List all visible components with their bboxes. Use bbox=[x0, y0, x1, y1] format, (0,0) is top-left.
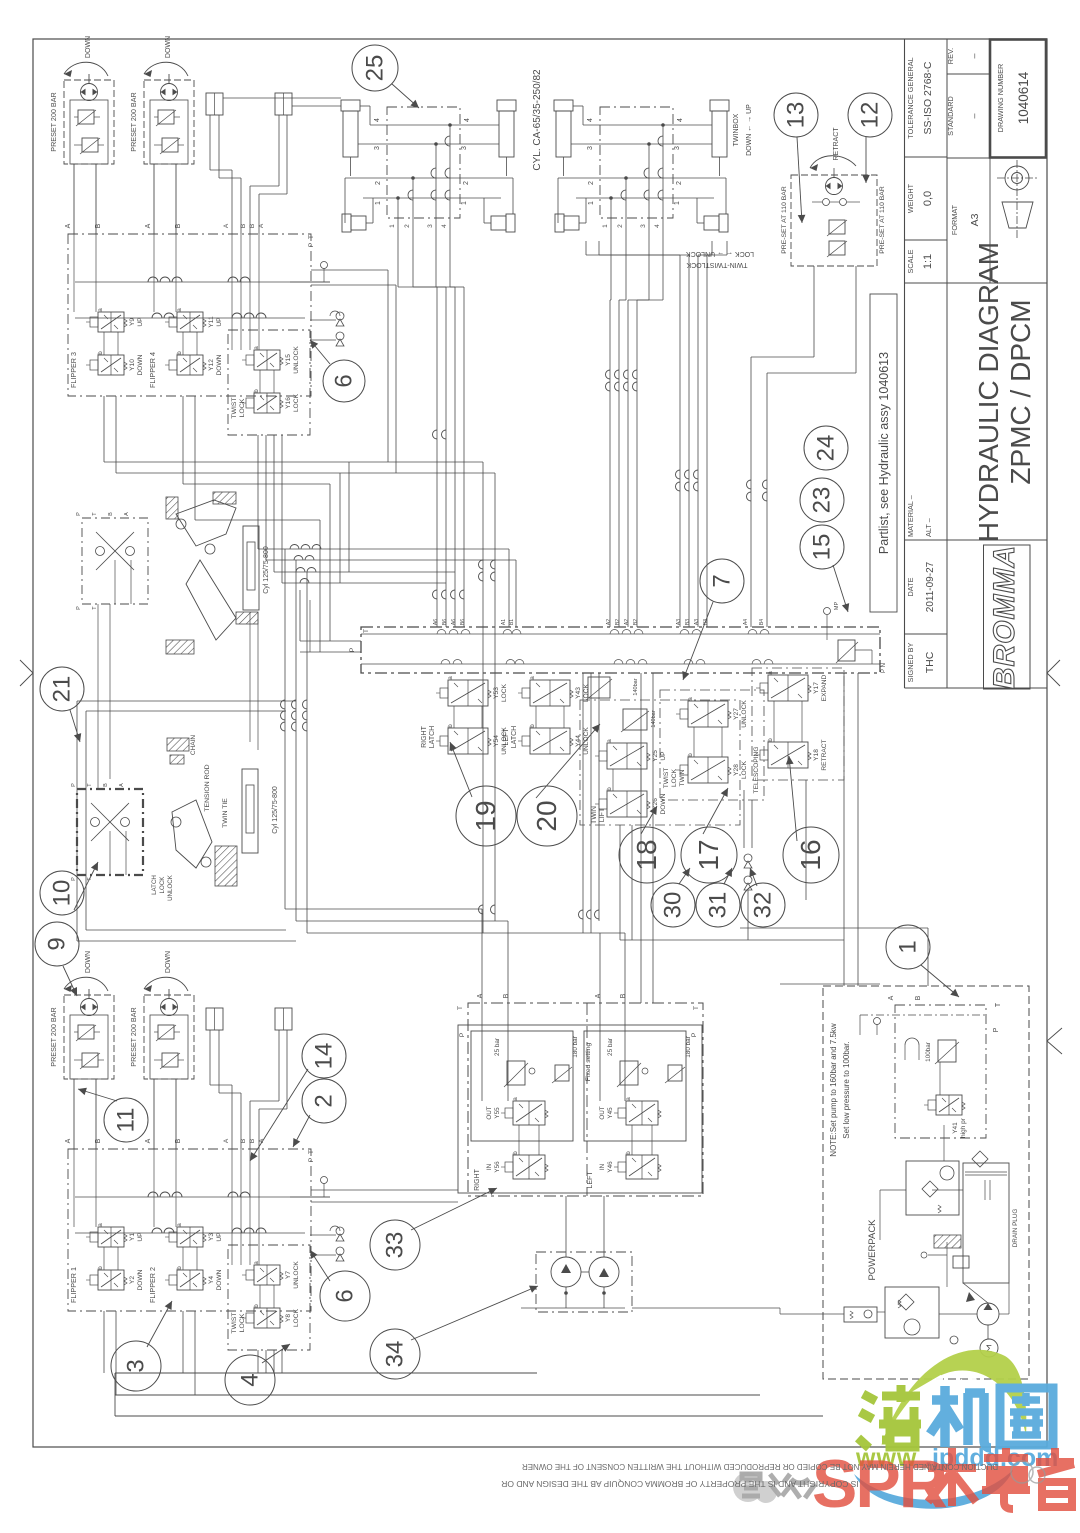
svg-text:SS-ISO 2768-C: SS-ISO 2768-C bbox=[922, 61, 934, 134]
svg-text:T: T bbox=[693, 1006, 700, 1010]
svg-text:LATCH: LATCH bbox=[511, 726, 518, 748]
svg-text:A: A bbox=[888, 995, 895, 1000]
svg-text:Y10: Y10 bbox=[129, 359, 136, 371]
svg-text:31: 31 bbox=[705, 892, 732, 919]
svg-text:B: B bbox=[175, 223, 182, 228]
svg-text:T: T bbox=[363, 629, 370, 633]
svg-text:P: P bbox=[993, 1027, 1000, 1032]
svg-text:24: 24 bbox=[813, 435, 840, 462]
svg-text:10: 10 bbox=[49, 880, 76, 907]
svg-text:T: T bbox=[308, 235, 315, 239]
svg-text:1: 1 bbox=[895, 940, 922, 953]
svg-text:P: P bbox=[76, 606, 82, 610]
svg-text:30: 30 bbox=[660, 892, 687, 919]
svg-text:UP: UP bbox=[137, 1232, 144, 1242]
svg-text:A: A bbox=[258, 223, 265, 228]
svg-text:IN: IN bbox=[486, 1163, 493, 1170]
svg-text:Y2: Y2 bbox=[129, 1276, 136, 1284]
svg-text:THC: THC bbox=[924, 651, 936, 673]
svg-text:7: 7 bbox=[709, 574, 736, 587]
svg-text:25 bar: 25 bar bbox=[607, 1038, 614, 1056]
svg-text:6: 6 bbox=[331, 374, 358, 387]
svg-text:25 bar: 25 bar bbox=[494, 1038, 501, 1056]
svg-text:TWIST: TWIST bbox=[231, 1312, 238, 1333]
svg-text:33: 33 bbox=[382, 1232, 409, 1259]
svg-text:B: B bbox=[249, 1139, 256, 1143]
svg-text:4: 4 bbox=[654, 224, 661, 228]
svg-text:P N: P N bbox=[881, 663, 887, 673]
svg-text:FLIPPER 3: FLIPPER 3 bbox=[69, 352, 78, 388]
svg-text:32: 32 bbox=[750, 892, 777, 919]
svg-text:P: P bbox=[76, 512, 82, 516]
svg-text:LOCK: LOCK bbox=[239, 398, 246, 417]
svg-text:B2: B2 bbox=[615, 619, 621, 625]
svg-text:Y11: Y11 bbox=[208, 316, 215, 328]
svg-text:3: 3 bbox=[374, 146, 381, 150]
svg-text:T: T bbox=[457, 1006, 464, 1010]
svg-text:4: 4 bbox=[587, 118, 594, 122]
svg-text:A: A bbox=[65, 223, 72, 228]
svg-text:LOCK: LOCK bbox=[293, 1308, 300, 1327]
svg-text:1: 1 bbox=[674, 201, 681, 205]
svg-text:Y55: Y55 bbox=[494, 1107, 501, 1119]
svg-text:2: 2 bbox=[404, 224, 411, 228]
svg-text:2: 2 bbox=[375, 181, 382, 185]
svg-text:NOTE:Set pump to 160bar and 7.: NOTE:Set pump to 160bar and 7.5kw bbox=[829, 1023, 838, 1157]
svg-text:1: 1 bbox=[389, 224, 396, 228]
svg-text:ZPMC / DPCM: ZPMC / DPCM bbox=[1005, 299, 1036, 484]
svg-text:high pr: high pr bbox=[960, 1117, 967, 1138]
svg-text:TENSION ROD: TENSION ROD bbox=[204, 764, 211, 811]
svg-text:TWIST: TWIST bbox=[231, 397, 238, 418]
svg-text:180 bar: 180 bar bbox=[685, 1036, 692, 1057]
svg-text:DOWN: DOWN bbox=[137, 354, 144, 375]
svg-text:A: A bbox=[477, 993, 484, 998]
svg-text:1: 1 bbox=[461, 201, 468, 205]
svg-text:FORMAT: FORMAT bbox=[950, 204, 959, 235]
svg-text:A: A bbox=[595, 993, 602, 998]
svg-text:B1: B1 bbox=[509, 619, 515, 625]
svg-text:3: 3 bbox=[461, 146, 468, 150]
svg-text:A6: A6 bbox=[451, 619, 457, 625]
svg-text:1: 1 bbox=[375, 201, 382, 205]
svg-text:3: 3 bbox=[427, 224, 434, 228]
svg-text:DOWN: DOWN bbox=[85, 951, 92, 973]
svg-text:180 bar: 180 bar bbox=[572, 1036, 579, 1057]
svg-text:13: 13 bbox=[783, 102, 810, 129]
svg-text:DOWN: DOWN bbox=[165, 36, 172, 58]
svg-text:12: 12 bbox=[857, 102, 884, 129]
svg-text:ALT –: ALT – bbox=[924, 517, 933, 537]
svg-text:B6: B6 bbox=[460, 619, 466, 625]
svg-text:CYL. CA-65/35-250/82: CYL. CA-65/35-250/82 bbox=[532, 69, 543, 171]
svg-text:B: B bbox=[249, 224, 256, 228]
svg-text:IS COPYRIGHT AND IS THE PROPER: IS COPYRIGHT AND IS THE PROPERTY OF BROM… bbox=[501, 1479, 859, 1489]
svg-text:LOCK: LOCK bbox=[501, 683, 508, 702]
svg-text:TWINBOX: TWINBOX bbox=[733, 113, 740, 146]
svg-text:T: T bbox=[995, 1002, 1002, 1007]
svg-text:DRAWING NUMBER: DRAWING NUMBER bbox=[996, 64, 1005, 133]
svg-text:B: B bbox=[95, 1138, 102, 1143]
svg-text:Y15: Y15 bbox=[285, 354, 292, 366]
svg-text:Y9: Y9 bbox=[129, 318, 136, 326]
svg-text:1: 1 bbox=[588, 201, 595, 205]
svg-text:20: 20 bbox=[531, 800, 562, 831]
svg-text:Y28: Y28 bbox=[733, 764, 740, 776]
svg-text:PRE-SET AT 110 BAR: PRE-SET AT 110 BAR bbox=[879, 186, 886, 254]
svg-text:B3: B3 bbox=[685, 619, 691, 625]
svg-text:Y41: Y41 bbox=[952, 1122, 959, 1134]
svg-text:18: 18 bbox=[631, 839, 662, 870]
svg-text:A6: A6 bbox=[433, 619, 439, 625]
svg-text:Y1: Y1 bbox=[129, 1233, 136, 1241]
svg-text:2: 2 bbox=[311, 1094, 338, 1107]
svg-text:UNLOCK: UNLOCK bbox=[293, 1261, 300, 1289]
svg-text:Y53: Y53 bbox=[493, 687, 500, 699]
svg-text:TWIN: TWIN bbox=[679, 769, 686, 786]
svg-text:9: 9 bbox=[44, 937, 71, 950]
svg-text:PRESET 200 BAR: PRESET 200 BAR bbox=[129, 1007, 138, 1066]
svg-text:TWIN TIE: TWIN TIE bbox=[222, 798, 229, 828]
svg-text:FLIPPER 2: FLIPPER 2 bbox=[148, 1267, 157, 1303]
svg-text:4: 4 bbox=[374, 118, 381, 122]
svg-text:RIGHT: RIGHT bbox=[474, 1168, 481, 1191]
svg-text:LOCK: LOCK bbox=[239, 1313, 246, 1332]
svg-text:POWERPACK: POWERPACK bbox=[867, 1219, 878, 1281]
svg-text:4: 4 bbox=[677, 118, 684, 122]
svg-text:LEFT: LEFT bbox=[503, 728, 510, 746]
svg-text:MP: MP bbox=[834, 602, 840, 611]
svg-text:UNLOCK: UNLOCK bbox=[741, 700, 748, 728]
svg-text:Y3: Y3 bbox=[208, 1233, 215, 1241]
svg-text:UP: UP bbox=[216, 1232, 223, 1242]
svg-text:A1: A1 bbox=[501, 619, 507, 625]
svg-text:LOCK: LOCK bbox=[671, 768, 678, 787]
svg-text:LATCH: LATCH bbox=[151, 875, 158, 895]
svg-text:4: 4 bbox=[237, 1373, 264, 1386]
svg-text:B: B bbox=[95, 223, 102, 228]
svg-text:IN: IN bbox=[599, 1163, 606, 1170]
svg-text:PRESET 200 BAR: PRESET 200 BAR bbox=[49, 1007, 58, 1066]
svg-text:19: 19 bbox=[470, 800, 501, 831]
svg-text:DOWN: DOWN bbox=[137, 1269, 144, 1290]
svg-text:3: 3 bbox=[123, 1359, 150, 1372]
svg-text:LOCK: LOCK bbox=[293, 393, 300, 412]
svg-text:2: 2 bbox=[588, 181, 595, 185]
svg-text:17: 17 bbox=[693, 839, 724, 870]
svg-text:A: A bbox=[124, 512, 130, 516]
svg-text:LEFT: LEFT bbox=[587, 1171, 594, 1189]
svg-text:RIGHT: RIGHT bbox=[421, 725, 428, 748]
svg-text:REV.: REV. bbox=[946, 48, 955, 64]
svg-text:TWIN: TWIN bbox=[591, 806, 598, 824]
svg-text:Fixed setting: Fixed setting bbox=[585, 1043, 592, 1082]
svg-text:EXPAND: EXPAND bbox=[821, 674, 828, 701]
svg-text:UNLOCK: UNLOCK bbox=[167, 874, 174, 901]
svg-text:B: B bbox=[240, 1139, 247, 1143]
svg-text:Cyl 125/75-800: Cyl 125/75-800 bbox=[272, 786, 279, 834]
svg-text:2011-09-27: 2011-09-27 bbox=[925, 561, 936, 612]
svg-text:RETRACT: RETRACT bbox=[821, 739, 828, 770]
svg-text:OUT: OUT bbox=[486, 1106, 493, 1119]
svg-text:A2: A2 bbox=[624, 619, 630, 625]
svg-text:B: B bbox=[620, 993, 627, 998]
svg-text:Y8: Y8 bbox=[285, 1314, 292, 1322]
svg-text:PRESET 200 BAR: PRESET 200 BAR bbox=[49, 92, 58, 151]
svg-text:LATCH: LATCH bbox=[429, 726, 436, 748]
svg-text:2: 2 bbox=[617, 224, 624, 228]
svg-text:3: 3 bbox=[674, 146, 681, 150]
svg-text:2: 2 bbox=[676, 181, 683, 185]
svg-text:A4: A4 bbox=[743, 619, 749, 625]
svg-text:UNLOCK: UNLOCK bbox=[583, 727, 590, 755]
svg-text:4: 4 bbox=[464, 118, 471, 122]
svg-text:A: A bbox=[65, 1138, 72, 1143]
svg-text:DOWN ← → UP: DOWN ← → UP bbox=[746, 104, 753, 156]
svg-text:0,0: 0,0 bbox=[922, 191, 934, 206]
svg-text:OUT: OUT bbox=[599, 1106, 606, 1119]
svg-text:UP: UP bbox=[216, 317, 223, 327]
svg-text:B: B bbox=[175, 1138, 182, 1143]
svg-text:P: P bbox=[308, 1158, 315, 1162]
svg-text:UP: UP bbox=[137, 317, 144, 327]
svg-text:A: A bbox=[145, 223, 152, 228]
svg-text:DATE: DATE bbox=[906, 577, 915, 596]
svg-text:LIFT: LIFT bbox=[599, 807, 606, 822]
svg-text:14: 14 bbox=[311, 1043, 338, 1070]
svg-text:Y45: Y45 bbox=[607, 1107, 614, 1119]
svg-text:A3: A3 bbox=[969, 213, 981, 226]
svg-text:Y7: Y7 bbox=[285, 1271, 292, 1279]
svg-text:Y16: Y16 bbox=[285, 397, 292, 409]
svg-text:21: 21 bbox=[49, 676, 76, 703]
svg-text:3: 3 bbox=[587, 146, 594, 150]
svg-text:Y46: Y46 bbox=[607, 1161, 614, 1173]
svg-text:A3: A3 bbox=[676, 619, 682, 625]
svg-text:P: P bbox=[459, 1033, 466, 1037]
svg-text:STANDARD: STANDARD bbox=[946, 96, 955, 136]
svg-text:B4: B4 bbox=[759, 619, 765, 625]
svg-text:140bar: 140bar bbox=[633, 678, 639, 695]
svg-text:–: – bbox=[969, 113, 979, 118]
svg-text:Y54: Y54 bbox=[493, 735, 500, 747]
svg-text:1:1: 1:1 bbox=[922, 254, 934, 269]
svg-text:A: A bbox=[223, 223, 230, 228]
svg-text:DUCTION CONTAINED HEREIN MAY N: DUCTION CONTAINED HEREIN MAY NOT BE COPI… bbox=[522, 1462, 998, 1471]
svg-text:3: 3 bbox=[640, 224, 647, 228]
svg-text:P: P bbox=[308, 243, 315, 247]
svg-text:Y4: Y4 bbox=[208, 1276, 215, 1284]
svg-text:SCALE: SCALE bbox=[906, 249, 915, 273]
svg-text:A2: A2 bbox=[606, 619, 612, 625]
svg-text:6: 6 bbox=[332, 1289, 359, 1302]
svg-text:Y18: Y18 bbox=[813, 749, 820, 761]
svg-text:LOCK ← → UNLOCK: LOCK ← → UNLOCK bbox=[686, 250, 754, 257]
svg-text:B: B bbox=[915, 995, 922, 1000]
svg-text:100bar: 100bar bbox=[925, 1042, 932, 1062]
svg-text:15: 15 bbox=[809, 534, 836, 561]
svg-text:Y17: Y17 bbox=[813, 682, 820, 694]
svg-text:P: P bbox=[691, 1033, 698, 1037]
svg-text:B: B bbox=[240, 224, 247, 228]
svg-text:4: 4 bbox=[441, 224, 448, 228]
svg-text:A: A bbox=[119, 783, 125, 787]
svg-text:B2: B2 bbox=[633, 619, 639, 625]
svg-text:HYDRAULIC DIAGRAM: HYDRAULIC DIAGRAM bbox=[973, 242, 1004, 542]
svg-text:140bar: 140bar bbox=[651, 710, 657, 727]
svg-text:1: 1 bbox=[602, 224, 609, 228]
svg-text:P: P bbox=[71, 783, 77, 787]
svg-text:FLIPPER 4: FLIPPER 4 bbox=[148, 352, 157, 388]
svg-text:UNLOCK: UNLOCK bbox=[293, 346, 300, 374]
svg-text:P: P bbox=[349, 648, 356, 652]
svg-text:DOWN: DOWN bbox=[85, 36, 92, 58]
svg-text:Y43: Y43 bbox=[575, 687, 582, 699]
svg-text:LOCK: LOCK bbox=[159, 876, 166, 894]
svg-text:WEIGHT: WEIGHT bbox=[906, 183, 915, 213]
svg-text:PRESET 200 BAR: PRESET 200 BAR bbox=[129, 92, 138, 151]
svg-text:TELESCOPING: TELESCOPING bbox=[753, 747, 760, 794]
svg-text:B: B bbox=[103, 783, 109, 787]
svg-text:DOWN: DOWN bbox=[165, 951, 172, 973]
svg-text:Y12: Y12 bbox=[208, 359, 215, 371]
svg-text:CHAIN: CHAIN bbox=[190, 735, 197, 756]
svg-text:Y44: Y44 bbox=[575, 735, 582, 747]
svg-text:MATERIAL –: MATERIAL – bbox=[906, 494, 915, 537]
svg-text:16: 16 bbox=[795, 839, 826, 870]
svg-text:B: B bbox=[108, 512, 114, 516]
svg-text:23: 23 bbox=[809, 487, 836, 514]
svg-text:–: – bbox=[969, 53, 979, 58]
svg-text:2: 2 bbox=[463, 181, 470, 185]
svg-text:TWIST: TWIST bbox=[663, 768, 670, 789]
svg-text:BROMMA: BROMMA bbox=[988, 545, 1021, 689]
svg-text:SIGNED BY: SIGNED BY bbox=[906, 643, 915, 683]
svg-text:Cyl 125/75-800: Cyl 125/75-800 bbox=[263, 546, 270, 594]
svg-text:Y27: Y27 bbox=[733, 708, 740, 720]
svg-text:DOWN: DOWN bbox=[660, 793, 667, 814]
svg-text:Set low pressure to 100bar.: Set low pressure to 100bar. bbox=[842, 1041, 851, 1138]
svg-text:PRE-SET AT 110 BAR: PRE-SET AT 110 BAR bbox=[781, 186, 788, 254]
svg-text:B6: B6 bbox=[442, 619, 448, 625]
svg-text:TWIN-TWISTLOCK: TWIN-TWISTLOCK bbox=[686, 261, 747, 268]
svg-text:B: B bbox=[503, 993, 510, 998]
svg-text:DOWN: DOWN bbox=[216, 1269, 223, 1290]
svg-text:A: A bbox=[223, 1138, 230, 1143]
svg-text:DRAIN PLUG: DRAIN PLUG bbox=[1012, 1209, 1019, 1248]
svg-text:25: 25 bbox=[362, 55, 389, 82]
svg-text:Partlist, see Hydraulic assy 1: Partlist, see Hydraulic assy 1040613 bbox=[877, 352, 891, 554]
svg-text:DOWN: DOWN bbox=[216, 354, 223, 375]
svg-text:A: A bbox=[145, 1138, 152, 1143]
svg-text:Y56: Y56 bbox=[494, 1161, 501, 1173]
svg-text:LOCK: LOCK bbox=[741, 760, 748, 779]
svg-text:FLIPPER 1: FLIPPER 1 bbox=[69, 1267, 78, 1303]
svg-text:1040614: 1040614 bbox=[1016, 71, 1031, 124]
svg-text:T: T bbox=[308, 1150, 315, 1154]
svg-text:TOLERANCE GENERAL: TOLERANCE GENERAL bbox=[906, 57, 915, 138]
svg-text:UP: UP bbox=[660, 751, 667, 761]
svg-text:34: 34 bbox=[382, 1341, 409, 1368]
svg-text:A3: A3 bbox=[694, 619, 700, 625]
svg-text:11: 11 bbox=[113, 1108, 140, 1133]
